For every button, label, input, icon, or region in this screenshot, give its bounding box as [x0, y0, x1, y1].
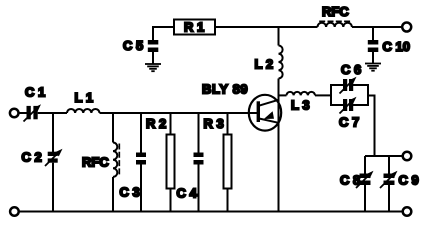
svg-text:C 5: C 5	[123, 38, 143, 53]
wire C4 branch lower	[198, 165, 200, 212]
wire R1 right to RFC	[215, 26, 318, 28]
capacitor C6 (trimmer)	[343, 79, 353, 91]
resistor R1	[174, 20, 215, 35]
terminal mid right	[403, 152, 412, 161]
wire C5 to ground	[152, 52, 154, 64]
svg-text:R 3: R 3	[204, 116, 224, 131]
wire C8 branch upper	[364, 156, 366, 174]
wire C3 branch lower	[140, 165, 142, 212]
svg-text:C 6: C 6	[341, 62, 361, 77]
wire input terminal to C1	[19, 112, 27, 114]
C6/C7 parallel block frame	[330, 84, 332, 106]
capacitor C10	[368, 40, 379, 52]
terminal input left	[10, 109, 19, 118]
capacitor C8 (trimmer)	[360, 174, 371, 186]
wire R3 branch lower	[227, 189, 229, 212]
wire RFC to top right terminal	[352, 26, 402, 28]
svg-text:RFC: RFC	[322, 4, 349, 19]
wire C4 branch upper	[198, 113, 200, 153]
wire L3 to C6/C7 block	[315, 94, 331, 96]
wire R2 branch lower	[170, 189, 172, 212]
wire C2 branch upper	[52, 113, 54, 152]
terminal bottom left	[10, 207, 19, 216]
svg-text:BLY 89: BLY 89	[202, 82, 248, 97]
wire R3 branch upper	[227, 113, 229, 135]
inductor L2	[279, 46, 283, 79]
svg-text:RFC: RFC	[82, 155, 109, 170]
wire C10 branch	[372, 27, 374, 40]
capacitor C2 (trimmer)	[48, 152, 58, 163]
bottom ground rail	[19, 211, 403, 213]
wire collector-emitter vertical lower	[278, 79, 280, 212]
capacitor C1 (trimmer)	[27, 106, 38, 119]
wire C3 branch upper	[140, 113, 142, 153]
svg-text:C 2: C 2	[22, 150, 42, 165]
wire RFC branch lower	[112, 177, 114, 212]
wire RFC branch upper	[112, 113, 114, 143]
svg-text:R 1: R 1	[184, 20, 204, 35]
svg-text:L 1: L 1	[75, 90, 94, 105]
wire output node line	[365, 155, 403, 157]
svg-text:C 10: C 10	[383, 39, 410, 54]
inductor L3	[287, 92, 315, 96]
inductor RFC (top choke)	[318, 23, 352, 27]
wire C9 branch lower	[388, 185, 390, 212]
svg-text:C 9: C 9	[399, 173, 419, 188]
svg-text:C 1: C 1	[25, 85, 45, 100]
transistor Q1 BLY 89	[249, 95, 281, 131]
wire block right stub down to output node	[368, 95, 375, 97]
wire C9 branch upper	[388, 156, 390, 174]
svg-text:C 7: C 7	[339, 115, 359, 130]
wire collector-emitter vertical top	[278, 27, 280, 46]
wire input rail C1 to base	[38, 112, 67, 114]
wire C8 branch lower	[364, 185, 366, 212]
wire rail after L1 to transistor base	[100, 112, 258, 114]
wire C2 branch lower	[52, 163, 54, 212]
capacitor C9 (trimmer)	[384, 174, 395, 186]
terminal top right	[402, 23, 411, 32]
svg-text:C 3: C 3	[120, 185, 140, 200]
top supply rail: C5 elbow to R1	[152, 26, 154, 41]
capacitor C7 (trimmer)	[343, 99, 353, 111]
capacitor C5	[148, 40, 159, 52]
wire C10 to ground	[372, 52, 374, 64]
terminal bottom right	[403, 207, 412, 216]
svg-text:L 2: L 2	[255, 57, 274, 72]
svg-text:C 4: C 4	[177, 186, 198, 201]
inductor RFC (vertical choke)	[113, 143, 117, 177]
wire R2 branch upper	[170, 113, 172, 135]
capacitor C3	[136, 153, 146, 165]
ground (C10)	[365, 64, 381, 71]
capacitor C4	[194, 153, 204, 165]
svg-text:R 2: R 2	[146, 116, 166, 131]
wire L3 stub from collector	[279, 94, 287, 96]
svg-text:C 8: C 8	[340, 173, 360, 188]
ground (C5)	[145, 64, 161, 71]
resistor R2	[167, 135, 175, 189]
inductor L1	[67, 109, 99, 113]
resistor R3	[224, 135, 232, 189]
svg-text:L 3: L 3	[291, 98, 310, 113]
